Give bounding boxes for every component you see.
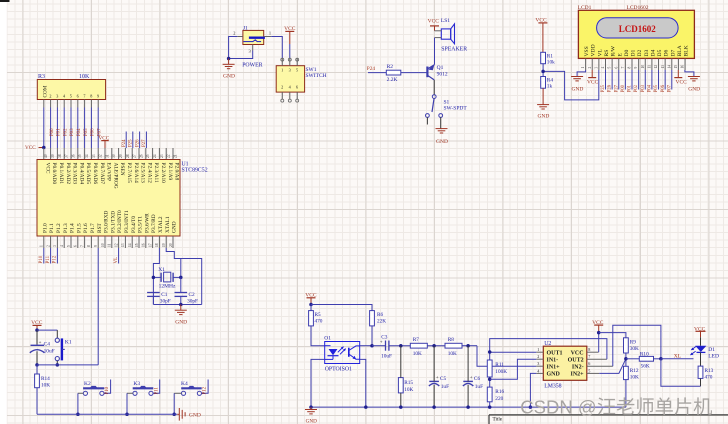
svg-text:P12: P12 (203, 386, 208, 394)
wire opto collector to node (360, 345, 372, 347)
wire R16 to rail (489, 402, 491, 407)
svg-text:XTAL1: XTAL1 (165, 216, 171, 233)
svg-text:P25: P25 (601, 84, 606, 92)
svg-text:13: 13 (121, 243, 125, 247)
svg-text:10K: 10K (448, 351, 457, 357)
svg-text:1: 1 (269, 30, 271, 35)
svg-text:Title: Title (493, 417, 503, 423)
wire VCC to U2 pin8 (598, 333, 600, 353)
junction (529, 405, 533, 409)
svg-text:5: 5 (608, 67, 612, 69)
svg-text:P01: P01 (57, 128, 62, 136)
wire C2 stubs (180, 277, 182, 304)
svg-text:16: 16 (681, 65, 685, 69)
wire LCD pin16 to ground (685, 70, 694, 77)
svg-text:P3.7/RD: P3.7/RD (151, 214, 157, 233)
svg-text:SW-SPDT: SW-SPDT (444, 105, 468, 111)
wire cap ground rail (153, 304, 201, 306)
wire VCC node down to C4 (36, 330, 38, 345)
wire VCC node to K1 top (37, 329, 57, 331)
svg-text:23: 23 (160, 154, 164, 158)
svg-text:PSEN: PSEN (119, 163, 125, 176)
svg-text:RS: RS (604, 50, 610, 57)
resistor R12 10K (624, 366, 639, 380)
svg-text:VCC: VCC (676, 80, 688, 86)
resistor R8 10K (445, 337, 462, 357)
svg-text:P0.1/AD1: P0.1/AD1 (58, 163, 64, 185)
svg-text:EA/VPP: EA/VPP (106, 163, 112, 181)
svg-text:10uF: 10uF (44, 349, 55, 355)
wire R13 to XL node (700, 378, 702, 386)
capacitor C2 30pF (175, 292, 199, 304)
op-amp U2 LM358 (543, 341, 587, 389)
svg-text:XTAL2: XTAL2 (158, 216, 164, 233)
wire opto cathode to ground rail (311, 359, 325, 407)
svg-text:3: 3 (594, 67, 598, 69)
svg-text:IN1+: IN1+ (547, 364, 561, 370)
svg-text:1uF: 1uF (441, 384, 449, 390)
svg-text:P26: P26 (135, 139, 140, 147)
svg-text:P1.7: P1.7 (90, 223, 96, 233)
wire R9 bottom (625, 353, 627, 366)
svg-text:11: 11 (648, 65, 652, 69)
svg-text:P1.1: P1.1 (49, 223, 55, 233)
switch SW1 SWITCH (276, 58, 326, 102)
svg-text:35: 35 (78, 154, 82, 158)
svg-text:5: 5 (70, 94, 72, 99)
svg-text:2: 2 (537, 354, 539, 359)
svg-text:33: 33 (92, 154, 96, 158)
resistor R9 30K (624, 338, 639, 353)
svg-text:D1: D1 (708, 347, 715, 353)
wire S1 throw 1 stub (426, 117, 428, 124)
svg-text:P03: P03 (70, 128, 75, 136)
power port VCC below LCD pin2 (587, 70, 599, 86)
power port VCC at LED (694, 326, 706, 337)
wire R5 to opto anode (311, 326, 325, 346)
svg-text:39: 39 (51, 154, 55, 158)
svg-text:BLA: BLA (677, 45, 683, 56)
wire J1 pin2 to ground (229, 37, 238, 59)
wire IN2+ diagonal to divider node (599, 359, 626, 374)
svg-text:GND: GND (537, 114, 549, 120)
svg-text:470: 470 (315, 319, 323, 325)
junction (227, 57, 231, 61)
svg-text:6: 6 (588, 361, 590, 366)
svg-text:P1.3: P1.3 (63, 223, 69, 233)
svg-text:10K: 10K (41, 382, 50, 388)
svg-text:O1: O1 (324, 336, 331, 342)
wire XL stub (661, 358, 694, 360)
power port VCC below LCD pin15 (674, 70, 687, 86)
svg-text:+: + (470, 376, 473, 381)
svg-text:36: 36 (71, 154, 75, 158)
ground GND below LCD pin16 (688, 77, 700, 93)
ground GND below crystal (175, 305, 187, 326)
svg-text:7: 7 (621, 67, 625, 69)
svg-text:P26: P26 (608, 84, 613, 92)
svg-text:R15: R15 (404, 380, 413, 386)
display LCD1 LCD1602 (578, 5, 695, 58)
wire C3 to R7 (389, 345, 410, 347)
watermark CSDN text (520, 397, 712, 418)
svg-text:GND: GND (306, 419, 317, 424)
wire K3 net stub (153, 380, 160, 394)
svg-text:P1.4: P1.4 (70, 223, 76, 233)
U1 bottom pins (40, 236, 173, 248)
svg-text:28: 28 (126, 154, 130, 158)
wire J1 pin1 to SW1 (271, 37, 282, 59)
svg-text:+: + (380, 340, 383, 345)
svg-text:P12: P12 (53, 255, 58, 263)
capacitor C6 1uF polarized (463, 376, 483, 390)
wire R4 to ground (542, 88, 544, 104)
wire R10 to XL node (654, 358, 661, 360)
ground GND key rail (sideways) (177, 408, 201, 421)
wire VCC node to R6 top (311, 305, 372, 311)
wire K4 left contact to rail (174, 392, 181, 394)
svg-text:K3: K3 (133, 381, 140, 387)
svg-text:R6: R6 (377, 312, 384, 318)
junction (432, 344, 436, 348)
svg-text:VDD: VDD (591, 44, 597, 56)
wire speaker to Q1 collector (434, 38, 436, 65)
wire node to R10 (626, 358, 639, 360)
svg-text:D5: D5 (657, 49, 663, 56)
svg-text:30K: 30K (630, 346, 639, 352)
wire signal to U2 IN1+ (477, 346, 536, 367)
svg-text:1: 1 (40, 245, 44, 247)
svg-text:P0.5/AD5: P0.5/AD5 (85, 163, 91, 185)
ground GND below LCD pin1 (571, 77, 583, 93)
svg-text:P24: P24 (367, 66, 376, 72)
wire S1 throw 2 to ground (440, 117, 442, 128)
wire XTAL1/GND to cap rail right (166, 248, 202, 305)
junction rail at GND (309, 405, 313, 409)
wire VCC to LED (700, 337, 702, 346)
svg-text:C1: C1 (161, 292, 168, 298)
svg-text:VL: VL (597, 48, 603, 56)
node junction VCC/COM (42, 146, 46, 150)
junction (597, 331, 601, 335)
junction (125, 413, 129, 417)
svg-text:6: 6 (296, 85, 298, 90)
svg-text:P0.0/AD0: P0.0/AD0 (51, 163, 57, 185)
svg-text:P01: P01 (628, 84, 633, 92)
svg-text:17: 17 (148, 243, 152, 247)
svg-text:R1: R1 (547, 53, 554, 59)
svg-text:COM: COM (43, 85, 49, 97)
svg-text:24: 24 (153, 154, 157, 158)
ground GND below J1 (223, 59, 235, 80)
wire crystal right node riser (180, 259, 182, 278)
U2 right pins (587, 347, 613, 373)
resistor R13 470 (698, 366, 714, 381)
wire R1 to R4 (542, 64, 544, 77)
capacitor C4 10uF polarized (30, 341, 55, 355)
svg-text:IN2-: IN2- (572, 364, 584, 370)
wire node to C3 (372, 345, 386, 347)
svg-text:P0.7/AD7: P0.7/AD7 (99, 163, 105, 185)
svg-text:GND: GND (688, 87, 700, 93)
svg-text:8: 8 (87, 245, 91, 247)
junction (76, 413, 80, 417)
svg-text:VCC: VCC (428, 19, 440, 25)
wire U2 GND pin to rail (530, 373, 536, 407)
svg-text:16: 16 (142, 243, 146, 247)
wire J1 pin3 to ground node (229, 51, 253, 59)
svg-text:VSS: VSS (584, 46, 590, 56)
svg-text:P3.1/TXD: P3.1/TXD (110, 211, 116, 233)
svg-text:21: 21 (173, 154, 177, 158)
svg-text:5: 5 (296, 68, 298, 73)
junction (35, 363, 39, 367)
resistor R11 100K (487, 360, 507, 377)
svg-text:13: 13 (661, 65, 665, 69)
svg-text:P24: P24 (122, 139, 127, 147)
wire C4 bottom (36, 351, 38, 365)
svg-text:6: 6 (74, 245, 78, 247)
svg-text:30pF: 30pF (160, 299, 171, 305)
svg-text:1k: 1k (547, 84, 553, 90)
svg-text:1: 1 (281, 68, 283, 73)
svg-text:C5: C5 (440, 376, 447, 382)
wire K1 bottom to node (56, 361, 58, 365)
svg-text:R4: R4 (547, 78, 554, 84)
button K4 (181, 381, 202, 395)
svg-text:R13: R13 (705, 368, 714, 374)
svg-text:2: 2 (588, 67, 592, 69)
svg-text:15: 15 (135, 243, 139, 247)
svg-text:P0.2/AD2: P0.2/AD2 (65, 163, 71, 185)
svg-text:5: 5 (67, 245, 71, 247)
svg-text:D1: D1 (631, 49, 637, 56)
button K3 (133, 381, 154, 395)
transistor Q1 9012 (427, 64, 447, 80)
svg-text:P11: P11 (46, 255, 51, 263)
svg-text:P2.0/A8: P2.0/A8 (174, 163, 180, 181)
svg-text:40: 40 (44, 154, 48, 158)
svg-text:D6: D6 (664, 49, 670, 56)
junction VCC node (35, 328, 39, 332)
svg-text:P2.6/A14: P2.6/A14 (133, 163, 139, 184)
svg-text:P0.4/AD4: P0.4/AD4 (78, 163, 84, 185)
power port VCC above R1 (535, 18, 547, 53)
svg-text:BLK: BLK (684, 45, 690, 56)
wire R14 top (36, 365, 38, 374)
svg-text:2: 2 (49, 94, 51, 99)
power port VCC (left of U1) (25, 145, 44, 151)
svg-text:30pF: 30pF (187, 299, 198, 305)
wire K2 left contact to rail (78, 392, 83, 394)
svg-text:P07: P07 (667, 84, 672, 92)
svg-text:LED: LED (708, 353, 719, 359)
svg-text:P1.6: P1.6 (83, 223, 89, 233)
J1 pin 1 (264, 30, 272, 36)
net labels P00-P07 (50, 128, 103, 136)
svg-text:2.2K: 2.2K (387, 77, 398, 83)
svg-text:GND: GND (172, 221, 178, 233)
wire VCC to SW1 pin (289, 44, 291, 59)
ground GND below R4 (537, 105, 549, 120)
net label stubs P2x above U1 (122, 132, 147, 149)
wire R14 bottom to key rail (36, 388, 38, 415)
svg-text:E: E (617, 53, 623, 57)
wire R6 bottom (371, 326, 373, 346)
svg-text:VL: VL (114, 257, 119, 264)
junction (309, 303, 313, 307)
svg-text:POWER: POWER (242, 63, 262, 69)
svg-text:P06: P06 (91, 128, 96, 136)
svg-text:38: 38 (58, 154, 62, 158)
power port VCC reset (31, 320, 43, 330)
svg-text:6: 6 (77, 94, 79, 99)
power port VCC above SW1 (284, 26, 296, 44)
wire OUT2 loop to OUT1/R11 node (490, 339, 607, 360)
wire C5 stubs (433, 346, 435, 407)
svg-text:22: 22 (167, 154, 171, 158)
LED D1 (690, 346, 719, 360)
svg-text:22K: 22K (377, 319, 386, 325)
svg-text:P02: P02 (63, 128, 68, 136)
wire OUT1 to R11 top (490, 352, 537, 360)
wire LCD pin3 VL loop to R1/R4 node (543, 70, 599, 100)
svg-text:20: 20 (169, 243, 173, 247)
svg-text:1: 1 (537, 347, 539, 352)
op U1 top pins (44, 148, 178, 160)
svg-text:R12: R12 (630, 368, 639, 374)
svg-text:GND: GND (436, 139, 448, 145)
svg-text:1: 1 (581, 67, 585, 69)
junction (488, 378, 492, 382)
svg-text:D3: D3 (644, 49, 650, 56)
svg-text:37: 37 (65, 154, 69, 158)
resistor R5 470 (309, 311, 323, 326)
wire R7 to R8 (427, 345, 445, 347)
capacitor C3 10uF (380, 335, 392, 360)
wire feedback node to IN1- (490, 359, 537, 379)
svg-text:26: 26 (139, 154, 143, 158)
resistor R10 56K (639, 351, 653, 369)
R3 pins (44, 100, 98, 108)
svg-text:P1.2: P1.2 (56, 223, 62, 233)
svg-text:P04: P04 (648, 84, 653, 92)
svg-text:K1: K1 (65, 340, 72, 346)
svg-text:470: 470 (705, 375, 713, 381)
LCD pins (581, 58, 685, 70)
button K2 (83, 381, 104, 395)
power port VCC opto (305, 293, 317, 305)
power port VCC above speaker (428, 19, 440, 31)
svg-text:8: 8 (90, 94, 92, 99)
svg-text:D0: D0 (624, 49, 630, 56)
svg-text:R7: R7 (413, 337, 420, 343)
svg-text:100K: 100K (495, 369, 507, 375)
wire analog ground rail (311, 406, 626, 408)
svg-text:P2.7/A15: P2.7/A15 (126, 163, 132, 184)
svg-text:VCC: VCC (571, 350, 584, 356)
switch S1 SW-SPDT (426, 95, 468, 118)
wire K4 net stub (202, 380, 209, 394)
svg-text:6: 6 (614, 67, 618, 69)
svg-text:32: 32 (99, 154, 103, 158)
J1 pin 2 (233, 31, 243, 37)
junction (466, 344, 470, 348)
svg-text:P10: P10 (39, 255, 44, 263)
junction (179, 303, 183, 307)
svg-text:P25: P25 (129, 139, 134, 147)
svg-text:LCD1602: LCD1602 (619, 24, 657, 34)
svg-text:19: 19 (162, 243, 166, 247)
svg-text:P10: P10 (105, 386, 110, 394)
svg-text:OUT1: OUT1 (547, 350, 563, 356)
svg-text:P3.3/INT1: P3.3/INT1 (124, 210, 130, 233)
resistor network R3 (37, 74, 105, 100)
svg-text:30: 30 (112, 154, 116, 158)
svg-text:31: 31 (105, 154, 109, 158)
svg-text:3: 3 (53, 245, 57, 247)
svg-text:IN2+: IN2+ (571, 372, 585, 378)
optocoupler O1 OPTOISO1 (324, 336, 359, 373)
wire P24 to R2 (368, 72, 386, 74)
svg-text:10K: 10K (413, 351, 422, 357)
wire IN2- up and over to XL node (613, 325, 661, 366)
svg-text:P2.1/A9: P2.1/A9 (167, 163, 173, 181)
svg-text:P27: P27 (614, 84, 619, 92)
svg-text:8: 8 (628, 67, 632, 69)
svg-text:LM358: LM358 (544, 383, 561, 389)
svg-text:R8: R8 (448, 337, 455, 343)
svg-text:7: 7 (83, 94, 85, 99)
junction XL node (659, 357, 663, 361)
svg-text:P27: P27 (142, 139, 147, 147)
svg-text:GND: GND (571, 87, 583, 93)
svg-text:P3.5/T1: P3.5/T1 (138, 216, 144, 233)
svg-text:10K: 10K (630, 374, 639, 380)
capacitor C5 1uF polarized (429, 376, 449, 390)
svg-text:P0.6/AD6: P0.6/AD6 (92, 163, 98, 185)
svg-text:C6: C6 (474, 376, 481, 382)
capacitor C1 30pF (147, 292, 171, 304)
svg-text:D7: D7 (670, 49, 676, 56)
resistor R14 (35, 374, 51, 388)
junction (172, 413, 176, 417)
svg-text:8: 8 (588, 347, 590, 352)
button K1 (55, 338, 72, 361)
svg-text:2: 2 (281, 85, 283, 90)
svg-text:7: 7 (80, 245, 84, 247)
wire C1 stubs (152, 296, 154, 304)
LCD data stubs with net labels (601, 70, 672, 92)
wire Q1 emitter down to S1 (433, 80, 435, 95)
resistor R4 (541, 77, 554, 90)
svg-text:R/W: R/W (611, 45, 617, 56)
wire node to R15 and rail (400, 346, 402, 407)
svg-text:P02: P02 (634, 84, 639, 92)
svg-text:11: 11 (108, 243, 112, 247)
svg-text:P06: P06 (661, 84, 666, 92)
svg-text:27: 27 (133, 154, 137, 158)
junction collector node (370, 344, 374, 348)
svg-text:GND: GND (223, 74, 235, 80)
svg-text:P1.0: P1.0 (42, 223, 48, 233)
svg-text:P03: P03 (641, 84, 646, 92)
svg-text:10uF: 10uF (381, 354, 392, 360)
svg-text:D4: D4 (650, 49, 656, 56)
svg-text:GND: GND (547, 372, 561, 378)
wire node row to RST riser (37, 364, 98, 366)
J1 pin 3 (249, 45, 253, 54)
